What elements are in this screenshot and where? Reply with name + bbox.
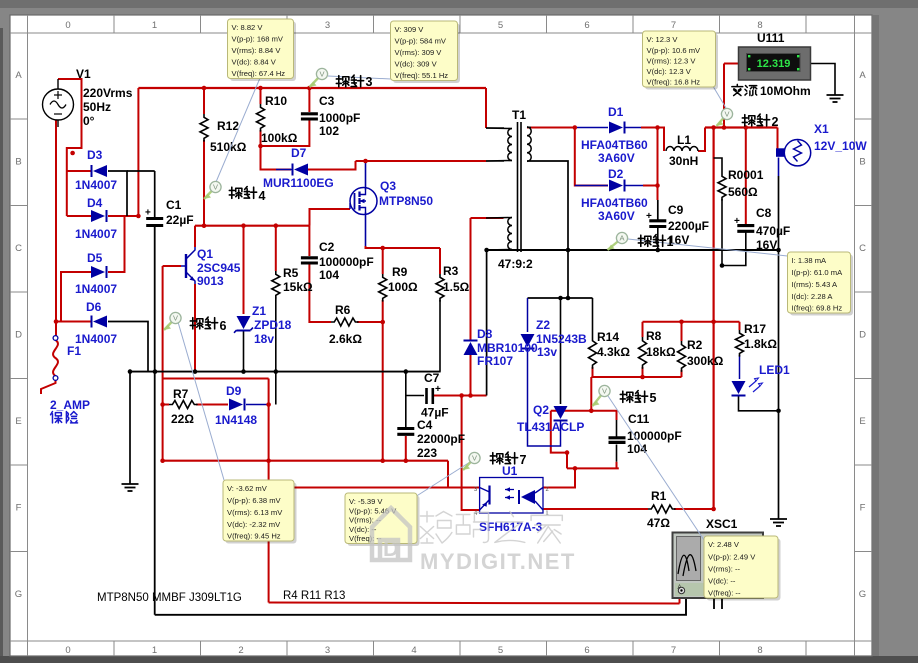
- oscilloscope XSC1: [673, 533, 764, 610]
- svg-text:V: V: [472, 454, 477, 463]
- svg-text:1: 1: [667, 235, 674, 249]
- wire Q3 source: [365, 212, 367, 246]
- wire Z1 bottom: [243, 332, 245, 372]
- wire T1 primary top lead: [486, 127, 504, 129]
- wire aux return drop: [486, 250, 488, 396]
- wire LED1 bottom row: [739, 397, 779, 411]
- capacitor C4: [397, 429, 414, 435]
- wire C8 bottom L: [722, 233, 746, 266]
- svg-text:1.5Ω: 1.5Ω: [443, 280, 470, 294]
- svg-text:4.3kΩ: 4.3kΩ: [597, 345, 630, 359]
- diode D5: [91, 266, 107, 278]
- label C8: [756, 206, 790, 252]
- wire C11 top lead: [616, 420, 618, 437]
- wire D1 out to L1: [641, 128, 664, 152]
- label Z1: [252, 304, 292, 346]
- wire Q2 cathode: [560, 298, 562, 404]
- svg-text:100Ω: 100Ω: [388, 280, 418, 294]
- wire C4 top: [405, 372, 407, 428]
- svg-text:50Hz: 50Hz: [83, 100, 111, 114]
- capacitor C11: [609, 438, 626, 443]
- svg-text:2SC945: 2SC945: [197, 261, 241, 275]
- svg-text:V: 12.3 V: V: 12.3 V: [647, 35, 679, 44]
- svg-text:560Ω: 560Ω: [728, 185, 758, 199]
- svg-text:A: A: [619, 234, 624, 243]
- resistor R14: [589, 337, 597, 369]
- svg-text:ZPD18: ZPD18: [254, 318, 292, 332]
- svg-text:V(dc): 12.3 V: V(dc): 12.3 V: [647, 67, 692, 76]
- svg-text:9013: 9013: [197, 274, 224, 288]
- wire ref column: [590, 377, 592, 411]
- wire R12 column: [203, 88, 205, 114]
- wire T1 primary bottom lead: [486, 160, 504, 162]
- resistor R0001: [718, 173, 726, 201]
- svg-text:7: 7: [671, 20, 676, 31]
- svg-text:TL431ACLP: TL431ACLP: [517, 420, 584, 434]
- wire T1 aux bottom lead: [487, 249, 504, 251]
- svg-text:E: E: [859, 416, 865, 427]
- wire D6 anode row: [108, 322, 148, 372]
- svg-text:F: F: [16, 503, 22, 514]
- resistor R7: [169, 401, 198, 409]
- svg-text:C7: C7: [424, 371, 440, 385]
- wire D9 cathode to loop right: [246, 404, 269, 406]
- svg-text:D1: D1: [608, 105, 624, 119]
- svg-text:V: V: [319, 70, 324, 79]
- label C11: [627, 412, 682, 456]
- svg-text:V1: V1: [76, 67, 91, 81]
- svg-text:X1: X1: [814, 122, 829, 136]
- wire R8 bottom lead: [642, 367, 644, 377]
- watermark logo: [372, 508, 410, 561]
- wire R17 top lead: [739, 322, 741, 330]
- diode D1: [609, 122, 625, 134]
- svg-text:R5: R5: [283, 266, 299, 280]
- resistor R6: [331, 318, 359, 326]
- label R17: [744, 322, 777, 351]
- wire R7 loop top: [163, 378, 269, 380]
- label XSC1: [706, 517, 738, 531]
- label U111: [757, 31, 785, 45]
- wire R10/C3 bottom row: [261, 120, 310, 146]
- svg-text:1N5243B: 1N5243B: [536, 332, 587, 346]
- label C1: [166, 198, 194, 227]
- wire opto pin2 riser: [543, 468, 575, 487]
- measurement box probe6: [226, 483, 297, 544]
- wire D3 cathode row: [67, 170, 92, 172]
- wire T1 secondary top to D1: [527, 127, 575, 129]
- svg-text:A: A: [859, 70, 866, 81]
- measurement box probe1: [790, 255, 853, 316]
- svg-text:V(freq): 16.8 Hz: V(freq): 16.8 Hz: [647, 78, 701, 87]
- svg-text:6: 6: [584, 645, 589, 656]
- wire scope input riser: [679, 591, 681, 604]
- transformer T1: [486, 122, 531, 252]
- probe tanzhen2: [717, 108, 779, 129]
- svg-text:V(rms): 6.13 mV: V(rms): 6.13 mV: [227, 508, 283, 517]
- svg-text:U111: U111: [757, 31, 785, 45]
- wire bottom black rail: [155, 592, 686, 615]
- svg-text:V: -5.39 V: V: -5.39 V: [349, 497, 383, 506]
- label bottom parts: [97, 592, 242, 604]
- svg-text:22µF: 22µF: [166, 213, 194, 227]
- svg-text:D4: D4: [87, 196, 103, 210]
- diode D2: [609, 180, 625, 192]
- svg-text:V: 2.48 V: V: 2.48 V: [708, 540, 740, 549]
- svg-text:V(freq): --: V(freq): --: [708, 589, 741, 598]
- capacitor C9: [646, 211, 666, 227]
- svg-text:V: V: [602, 387, 607, 396]
- label U1: [479, 464, 543, 534]
- probe tanzhen4: [204, 181, 266, 203]
- svg-text:R0001: R0001: [728, 168, 764, 182]
- svg-text:MTP8N50 MMBF J309LT1G: MTP8N50 MMBF J309LT1G: [97, 592, 242, 604]
- diode D8: [464, 341, 478, 356]
- svg-text:D9: D9: [226, 384, 242, 398]
- source V1: [43, 79, 74, 127]
- wire D5 anode branch: [56, 272, 91, 322]
- wire Q1 collector riser: [194, 226, 196, 247]
- wire bridge + D4 cathode row: [108, 215, 138, 217]
- wire D3 anode L: [108, 171, 127, 216]
- label F1: [50, 344, 90, 412]
- svg-text:5: 5: [650, 391, 657, 405]
- wire V1 bottom to bridge: [56, 120, 92, 322]
- ground primary: [122, 484, 139, 491]
- wire R7 left: [162, 379, 164, 461]
- wire C4 bottom: [405, 436, 407, 461]
- svg-text:3: 3: [325, 20, 330, 31]
- led LED1: [732, 378, 763, 396]
- wire Q3 drain: [365, 161, 367, 190]
- wire D1 D2 right tie: [657, 128, 659, 201]
- svg-text:47:9:2: 47:9:2: [498, 257, 533, 271]
- label D8: [477, 327, 538, 368]
- svg-text:C: C: [859, 243, 866, 254]
- wire C9 top: [657, 200, 659, 220]
- svg-text:22000pF: 22000pF: [417, 432, 465, 446]
- wire meter drop: [723, 64, 725, 128]
- svg-text:100kΩ: 100kΩ: [261, 131, 298, 145]
- svg-text:F: F: [860, 503, 866, 514]
- svg-text:6: 6: [584, 20, 589, 31]
- svg-text:16V: 16V: [756, 238, 777, 252]
- svg-text:R2: R2: [687, 338, 703, 352]
- wire L1 out riser: [698, 128, 705, 152]
- svg-text:0°: 0°: [83, 114, 95, 128]
- svg-text:V(freq): --: V(freq): --: [349, 534, 382, 543]
- svg-text:C1: C1: [166, 198, 182, 212]
- label T1: [498, 108, 533, 271]
- label C3: [319, 94, 360, 138]
- svg-text:V: 309 V: V: 309 V: [395, 25, 425, 34]
- svg-text:I(dc): 2.28 A: I(dc): 2.28 A: [792, 292, 834, 301]
- capacitor C2: [301, 258, 318, 263]
- wire meter right pin to ground: [811, 64, 836, 96]
- wire bottom red bus: [163, 460, 448, 462]
- svg-text:1N4007: 1N4007: [75, 227, 117, 241]
- svg-text:V: V: [173, 314, 178, 323]
- wire D1 anode lead: [575, 127, 608, 129]
- wire Q3 source row: [366, 246, 441, 248]
- label Q1: [197, 247, 241, 288]
- optocoupler U1: [474, 478, 550, 518]
- svg-text:D7: D7: [291, 146, 307, 160]
- resistor R9: [379, 274, 387, 302]
- svg-text:MTP8N50: MTP8N50: [379, 194, 433, 208]
- svg-text:G: G: [15, 589, 22, 600]
- wire R14 bottom lead: [592, 367, 594, 377]
- watermark text: [420, 511, 576, 574]
- svg-text:V: V: [213, 183, 218, 192]
- wire meter left pin: [724, 63, 739, 65]
- wire D1 D2 left tie: [575, 128, 608, 186]
- svg-text:0: 0: [65, 645, 70, 656]
- svg-text:1: 1: [152, 645, 157, 656]
- label R14: [597, 330, 630, 359]
- wire C2 bottom to R6 row: [309, 264, 331, 322]
- wire D4-D5 cathode tie: [108, 216, 125, 272]
- svg-text:I: 1.38 mA: I: 1.38 mA: [792, 256, 828, 265]
- svg-text:47Ω: 47Ω: [647, 516, 670, 530]
- svg-text:Q1: Q1: [197, 247, 213, 261]
- label D6: [75, 300, 117, 346]
- svg-text:V(p-p): 584 mV: V(p-p): 584 mV: [395, 37, 447, 46]
- svg-text:E: E: [15, 416, 21, 427]
- diode D6: [92, 316, 108, 328]
- svg-text:LED1: LED1: [759, 363, 790, 377]
- svg-text:7: 7: [520, 453, 527, 467]
- probe tanzhen6: [164, 312, 227, 333]
- node dots black: [128, 248, 781, 413]
- wire C8 top: [745, 128, 747, 225]
- wire D2 anode lead: [575, 185, 608, 187]
- svg-text:V(dc): 309 V: V(dc): 309 V: [395, 60, 438, 69]
- measurement box probe4: [230, 22, 296, 82]
- probe tanzhen7: [463, 452, 527, 470]
- wire D2 out: [643, 185, 658, 187]
- svg-text:XSC1: XSC1: [706, 517, 738, 531]
- svg-text:18v: 18v: [254, 332, 274, 346]
- wire R3 bottom: [439, 300, 441, 372]
- svg-text:D: D: [859, 330, 866, 341]
- resistor R17: [736, 330, 744, 357]
- wire R2 bottom lead: [681, 370, 683, 377]
- svg-text:MUR1100EG: MUR1100EG: [263, 176, 334, 190]
- ground meter: [827, 95, 844, 102]
- wire R14 top lead: [592, 298, 594, 337]
- label D2: [581, 167, 648, 223]
- resistor R2: [678, 341, 686, 372]
- svg-text:8: 8: [757, 645, 762, 656]
- svg-text:5: 5: [498, 645, 503, 656]
- svg-text:C3: C3: [319, 94, 335, 108]
- svg-text:V(dc): -2.32 mV: V(dc): -2.32 mV: [227, 520, 281, 529]
- wire primary ground bus: [130, 371, 441, 373]
- svg-text:V(rms): --: V(rms): --: [708, 564, 741, 573]
- svg-text:B: B: [15, 157, 21, 168]
- svg-text:22Ω: 22Ω: [171, 412, 194, 426]
- label D5: [75, 251, 117, 296]
- wire ground stub left: [129, 372, 131, 484]
- svg-text:100000pF: 100000pF: [319, 255, 374, 269]
- svg-text:V(p-p): 10.6 mV: V(p-p): 10.6 mV: [647, 46, 702, 55]
- label R10: [261, 94, 298, 145]
- wire T1 primary top drop: [485, 88, 487, 128]
- label bottom parts2: [283, 590, 345, 602]
- svg-text:6: 6: [220, 319, 227, 333]
- svg-text:I(freq): 69.8 Hz: I(freq): 69.8 Hz: [792, 304, 843, 313]
- wire D1 cathode lead: [626, 127, 644, 129]
- label D7: [263, 146, 334, 190]
- svg-text:R17: R17: [744, 322, 766, 336]
- wire Q3 gate: [310, 209, 351, 226]
- svg-text:2200µF: 2200µF: [668, 219, 709, 233]
- svg-text:7: 7: [671, 645, 676, 656]
- wire X1 bottom: [778, 158, 780, 177]
- label C9: [668, 203, 709, 247]
- svg-text:D2: D2: [608, 167, 624, 181]
- probe tanzhen1: [608, 232, 674, 250]
- svg-text:R4 R11 R13: R4 R11 R13: [283, 590, 345, 602]
- diode D9: [229, 399, 245, 411]
- svg-text:2: 2: [238, 645, 243, 656]
- label Q3: [379, 179, 433, 208]
- wire feedback head row: [528, 297, 593, 299]
- svg-text:FR107: FR107: [477, 354, 513, 368]
- svg-text:104: 104: [319, 268, 339, 282]
- svg-text:+: +: [734, 216, 740, 227]
- label D3: [75, 148, 117, 192]
- wire R10 row to D7: [261, 146, 292, 170]
- lamp X1: [776, 140, 811, 166]
- svg-text:220Vrms: 220Vrms: [83, 86, 133, 100]
- svg-text:12V_10W: 12V_10W: [814, 139, 867, 153]
- wire output rail: [705, 126, 778, 128]
- zener Z1: [234, 316, 253, 333]
- wire R7 loop right edge: [268, 379, 270, 603]
- svg-text:Z2: Z2: [536, 318, 550, 332]
- capacitor C1: [145, 208, 163, 226]
- wire R0001 top: [714, 158, 722, 173]
- svg-text:2.6kΩ: 2.6kΩ: [329, 332, 362, 346]
- resistor R12: [200, 114, 208, 142]
- svg-text:1: 1: [152, 20, 157, 31]
- wire node bus (Q1 collector / R5 / Z1 / C2): [195, 225, 310, 227]
- probe tanzhen3: [310, 68, 373, 89]
- svg-text:D3: D3: [87, 148, 103, 162]
- svg-text:R1: R1: [651, 489, 667, 503]
- resistor R1: [648, 505, 676, 513]
- label D4: [75, 196, 117, 241]
- label meter mode: [732, 84, 811, 98]
- svg-text:470µF: 470µF: [756, 224, 790, 238]
- svg-text:0: 0: [65, 20, 70, 31]
- capacitor C8: [734, 216, 754, 231]
- wire C1 top tie: [127, 170, 155, 172]
- diode D3: [92, 165, 108, 177]
- svg-text:3: 3: [366, 75, 373, 89]
- svg-text:Z1: Z1: [252, 304, 266, 318]
- svg-text:V(freq): 67.4 Hz: V(freq): 67.4 Hz: [232, 69, 286, 78]
- wire LED1 top: [739, 355, 741, 379]
- mosfet Q3: [350, 188, 377, 215]
- wire R5 bottom: [275, 297, 277, 405]
- svg-text:C8: C8: [756, 206, 772, 220]
- svg-text:D: D: [383, 536, 399, 561]
- svg-text:V: -3.62 mV: V: -3.62 mV: [227, 484, 268, 493]
- svg-text:L1: L1: [677, 133, 691, 147]
- svg-text:13v: 13v: [537, 345, 557, 359]
- wire R6 right to R9 bottom: [357, 300, 383, 322]
- svg-text:U1: U1: [502, 464, 518, 478]
- svg-text:Q3: Q3: [380, 179, 396, 193]
- svg-text:V(dc): --: V(dc): --: [708, 577, 736, 586]
- label R12: [210, 119, 247, 154]
- zener Z2: [521, 334, 535, 349]
- svg-text:Q2: Q2: [533, 403, 549, 417]
- wire divider mid rail: [591, 376, 681, 378]
- svg-text:HFA04TB60: HFA04TB60: [581, 196, 648, 210]
- resistor R3: [436, 274, 444, 302]
- wire Q1 base to R7 loop: [162, 266, 164, 379]
- wire C11 bottom loop: [616, 462, 618, 469]
- measurement box probe2: [645, 34, 718, 90]
- svg-text:8: 8: [757, 20, 762, 31]
- svg-text:D5: D5: [87, 251, 103, 265]
- wire C1 top lead: [154, 171, 156, 217]
- svg-text:104: 104: [627, 442, 647, 456]
- wire Q1 emitter drop: [194, 284, 196, 372]
- svg-text:15kΩ: 15kΩ: [283, 280, 313, 294]
- svg-text:1N4007: 1N4007: [75, 282, 117, 296]
- wire R6 node to bottom bus: [382, 322, 384, 461]
- measurement box scope: [707, 539, 781, 601]
- transistor Q1: [181, 247, 195, 284]
- wire main vertical to R1 and feedback: [712, 128, 714, 510]
- wire T1 aux top to D8: [470, 218, 472, 341]
- svg-text:V(freq): 55.1 Hz: V(freq): 55.1 Hz: [395, 71, 449, 80]
- svg-text:C11: C11: [628, 412, 650, 426]
- label R6: [329, 303, 362, 346]
- svg-text:2: 2: [772, 115, 779, 129]
- svg-text:V(p-p): 2.49 V: V(p-p): 2.49 V: [708, 552, 756, 561]
- label Z2: [536, 318, 587, 359]
- wire Z2 top: [527, 298, 529, 332]
- wire D4 anode row: [67, 215, 91, 217]
- svg-text:R9: R9: [392, 265, 408, 279]
- wire Z1 top: [243, 226, 245, 314]
- wire R12 bottom to node bus: [203, 140, 205, 226]
- wire R7 to D9: [163, 404, 169, 406]
- label LED1: [759, 363, 790, 377]
- label D1: [581, 105, 648, 165]
- svg-text:R8: R8: [646, 329, 662, 343]
- svg-text:V: 8.82 V: V: 8.82 V: [232, 23, 264, 32]
- label R8: [646, 329, 676, 359]
- svg-text:12.319: 12.319: [757, 58, 791, 70]
- svg-text:C2: C2: [319, 240, 335, 254]
- wire C3 top: [308, 88, 310, 112]
- wire R2 top lead: [681, 322, 683, 341]
- svg-text:2_AMP: 2_AMP: [50, 398, 90, 412]
- svg-text:I(rms): 5.43 A: I(rms): 5.43 A: [792, 280, 839, 289]
- svg-text:A: A: [15, 70, 22, 81]
- multimeter U111: [739, 47, 811, 80]
- svg-text:V(rms): 309 V: V(rms): 309 V: [395, 48, 443, 57]
- resistor R5: [272, 271, 280, 299]
- svg-text:HFA04TB60: HFA04TB60: [581, 138, 648, 152]
